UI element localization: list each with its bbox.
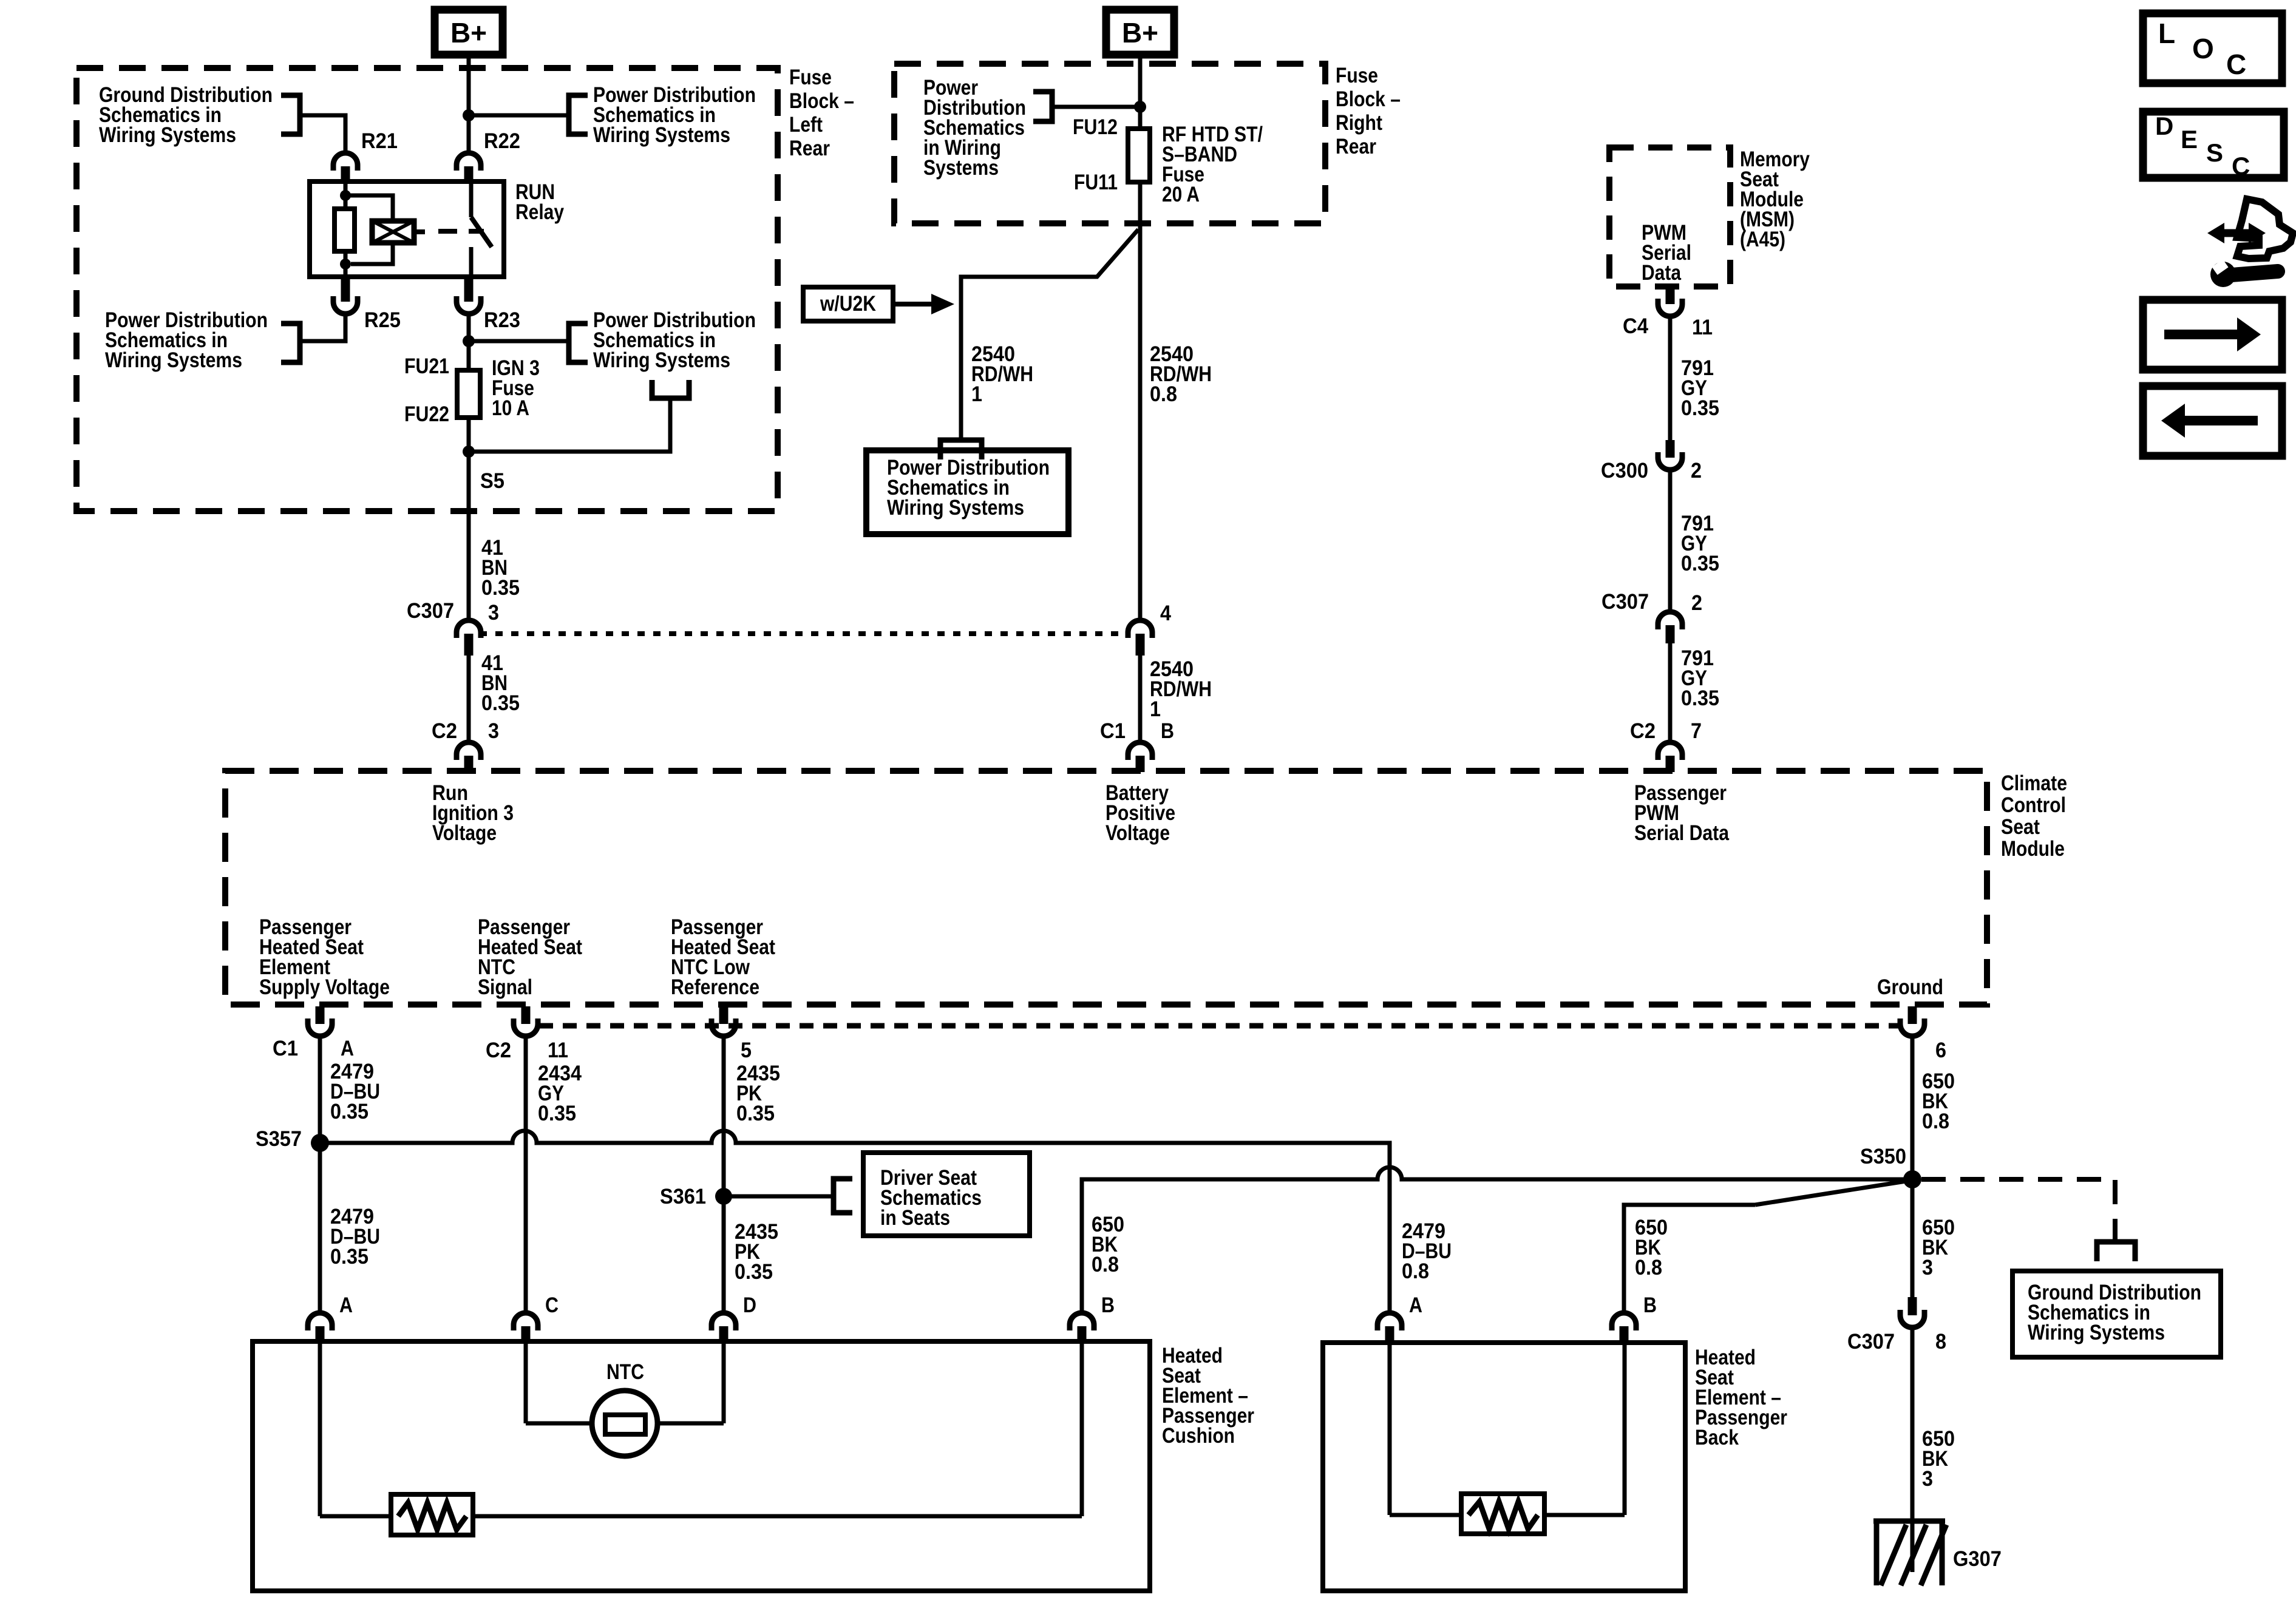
svg-text:C1: C1 (1100, 719, 1126, 743)
svg-text:Ground: Ground (1877, 975, 1943, 999)
svg-text:20 A: 20 A (1162, 183, 1200, 206)
svg-text:2: 2 (1691, 459, 1702, 483)
svg-text:C2: C2 (1630, 719, 1656, 743)
svg-text:Block –: Block – (1336, 87, 1401, 111)
svg-text:C300: C300 (1601, 459, 1648, 483)
svg-text:FU22: FU22 (404, 402, 449, 426)
svg-text:11: 11 (548, 1039, 568, 1062)
svg-text:Block –: Block – (789, 89, 854, 113)
svg-text:0.35: 0.35 (1681, 396, 1719, 420)
svg-text:Wiring Systems: Wiring Systems (887, 496, 1024, 520)
svg-text:A: A (1409, 1293, 1422, 1317)
svg-text:0.35: 0.35 (538, 1102, 576, 1125)
svg-text:NTC: NTC (606, 1360, 644, 1384)
svg-text:Fuse: Fuse (1336, 64, 1378, 87)
svg-text:1: 1 (1150, 697, 1161, 721)
svg-text:Module: Module (2001, 837, 2065, 861)
svg-text:0.8: 0.8 (1150, 382, 1177, 406)
svg-text:S350: S350 (1860, 1145, 1906, 1168)
svg-text:Reference: Reference (671, 975, 759, 999)
svg-text:Wiring Systems: Wiring Systems (105, 348, 242, 372)
svg-text:C307: C307 (1601, 590, 1649, 614)
svg-text:Wiring Systems: Wiring Systems (99, 123, 236, 147)
svg-text:0.35: 0.35 (736, 1102, 775, 1125)
svg-text:8: 8 (1935, 1330, 1946, 1354)
svg-text:7: 7 (1691, 719, 1702, 743)
svg-text:0.8: 0.8 (1092, 1253, 1119, 1276)
svg-text:D: D (2155, 112, 2173, 140)
svg-text:0.35: 0.35 (1681, 686, 1719, 710)
svg-text:6: 6 (1935, 1039, 1946, 1062)
svg-text:R25: R25 (364, 308, 401, 332)
svg-text:Data: Data (1642, 261, 1681, 285)
svg-text:G307: G307 (1953, 1547, 2002, 1571)
svg-text:0.8: 0.8 (1402, 1259, 1429, 1283)
svg-text:Control: Control (2001, 793, 2066, 817)
svg-text:C: C (2226, 49, 2246, 80)
svg-text:2: 2 (1691, 591, 1702, 615)
svg-text:0.35: 0.35 (330, 1245, 369, 1269)
svg-text:Supply Voltage: Supply Voltage (259, 975, 390, 999)
svg-text:C4: C4 (1623, 314, 1648, 338)
svg-text:A: A (339, 1293, 353, 1317)
svg-text:3: 3 (488, 601, 499, 625)
svg-text:3: 3 (1922, 1256, 1933, 1279)
svg-text:S357: S357 (256, 1127, 302, 1151)
svg-text:C2: C2 (486, 1039, 511, 1062)
svg-text:Left: Left (789, 113, 823, 137)
svg-text:Signal: Signal (478, 975, 532, 999)
svg-text:O: O (2192, 33, 2214, 64)
svg-text:C1: C1 (273, 1037, 298, 1060)
svg-text:R22: R22 (484, 129, 520, 153)
svg-text:L: L (2158, 18, 2175, 49)
svg-text:0.35: 0.35 (481, 576, 520, 600)
svg-text:R21: R21 (361, 129, 398, 153)
svg-text:FU11: FU11 (1074, 171, 1118, 194)
svg-text:0.8: 0.8 (1922, 1110, 1949, 1133)
svg-text:D: D (743, 1293, 756, 1317)
svg-text:Cushion: Cushion (1162, 1424, 1235, 1448)
svg-text:FU21: FU21 (404, 354, 449, 378)
svg-text:A: A (341, 1037, 354, 1060)
svg-text:3: 3 (488, 719, 499, 743)
svg-text:S: S (2206, 138, 2223, 167)
svg-text:Wiring Systems: Wiring Systems (593, 348, 730, 372)
svg-text:Right: Right (1336, 111, 1382, 135)
svg-text:Climate: Climate (2001, 771, 2067, 795)
svg-text:FU12: FU12 (1073, 115, 1118, 139)
svg-text:S361: S361 (660, 1185, 706, 1208)
svg-text:C307: C307 (407, 599, 454, 623)
svg-text:Fuse: Fuse (789, 66, 832, 89)
svg-text:Wiring Systems: Wiring Systems (593, 123, 730, 147)
svg-text:0.8: 0.8 (1635, 1256, 1662, 1279)
svg-text:C: C (545, 1293, 559, 1317)
svg-text:Serial Data: Serial Data (1634, 821, 1729, 845)
svg-text:Voltage: Voltage (432, 821, 497, 845)
svg-text:3: 3 (1922, 1467, 1933, 1491)
svg-text:1: 1 (971, 382, 982, 406)
svg-text:in Seats: in Seats (880, 1206, 950, 1230)
svg-text:C307: C307 (1847, 1330, 1895, 1354)
svg-text:0.35: 0.35 (1681, 552, 1719, 575)
svg-text:E: E (2181, 125, 2198, 154)
svg-text:B+: B+ (450, 17, 487, 49)
svg-text:Relay: Relay (515, 200, 564, 224)
svg-text:B: B (1643, 1293, 1657, 1317)
svg-text:B: B (1161, 719, 1174, 743)
svg-text:0.35: 0.35 (735, 1260, 773, 1284)
svg-text:11: 11 (1692, 316, 1713, 339)
svg-text:B+: B+ (1122, 17, 1158, 49)
svg-text:Wiring Systems: Wiring Systems (2028, 1321, 2165, 1344)
svg-text:0.35: 0.35 (481, 691, 520, 715)
svg-text:0.35: 0.35 (330, 1100, 369, 1123)
svg-text:C2: C2 (432, 719, 457, 743)
svg-text:Back: Back (1695, 1426, 1739, 1449)
svg-text:10 A: 10 A (492, 396, 529, 420)
svg-text:Seat: Seat (2001, 815, 2040, 839)
svg-text:4: 4 (1160, 602, 1171, 625)
svg-text:Systems: Systems (923, 156, 999, 180)
svg-text:Voltage: Voltage (1106, 821, 1170, 845)
svg-text:w/U2K: w/U2K (820, 292, 876, 316)
svg-text:Rear: Rear (1336, 135, 1376, 158)
svg-text:C: C (2232, 152, 2250, 180)
svg-text:(A45): (A45) (1740, 228, 1785, 251)
svg-text:Rear: Rear (789, 137, 830, 160)
svg-text:R23: R23 (484, 308, 520, 332)
svg-text:S5: S5 (480, 469, 504, 493)
svg-text:5: 5 (741, 1039, 752, 1062)
svg-text:B: B (1101, 1293, 1115, 1317)
